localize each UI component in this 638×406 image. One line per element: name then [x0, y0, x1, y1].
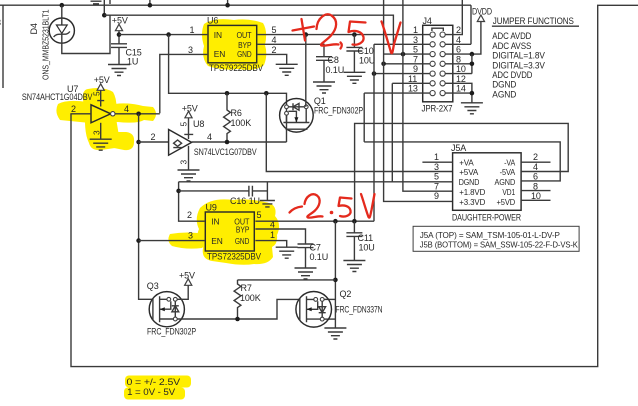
- J5A connector: [434, 143, 541, 222]
- svg-text:2: 2: [151, 132, 156, 142]
- handwriting -2.5V red: [290, 207, 303, 213]
- wire Q2 drain vertical from rail: [334, 221, 336, 328]
- wire J4 pin7 row: [384, 63, 423, 65]
- wire +2.5V rail U6 OUT to J4 pin1: [257, 34, 422, 36]
- JUMPER FUNCTIONS list: [492, 16, 579, 101]
- svg-text:AGND: AGND: [495, 177, 516, 187]
- junction dot +5VA branch: [264, 91, 269, 96]
- svg-text:11: 11: [408, 74, 417, 84]
- svg-text:+VA: +VA: [459, 157, 474, 167]
- +5V power arrow at C15: [115, 24, 122, 31]
- second line net (zener to pin3): [104, 15, 393, 44]
- svg-text:4: 4: [272, 35, 277, 45]
- wire J4 pin4 up: [453, 43, 471, 45]
- ground under C15: [108, 65, 130, 76]
- wire U8 Vcc pin 5: [184, 118, 193, 139]
- svg-text:-VA: -VA: [504, 157, 515, 167]
- svg-text:4: 4: [207, 132, 212, 142]
- junction dot top rail / D4: [60, 3, 65, 8]
- junction dot top rail x227: [225, 3, 230, 8]
- small ground under C16: [260, 201, 275, 207]
- highlighter blob over U9: [197, 199, 279, 264]
- J4 connector: [422, 16, 453, 113]
- wire J5A pin10 stub: [521, 199, 550, 201]
- svg-text:3: 3: [91, 130, 101, 135]
- svg-text:1: 1: [413, 25, 418, 35]
- svg-text:8: 8: [456, 54, 461, 64]
- ground under J4: [461, 103, 483, 114]
- svg-text:+5V: +5V: [94, 75, 110, 85]
- svg-text:R7: R7: [241, 283, 252, 293]
- transistor Q3 FRC_FDN302P: [147, 281, 196, 337]
- svg-text:3: 3: [413, 35, 418, 45]
- svg-text:5: 5: [91, 91, 101, 96]
- resistor R7: [234, 280, 241, 319]
- svg-text:+3.3VD: +3.3VD: [459, 197, 485, 207]
- wire J5A pin8 stub: [521, 190, 550, 192]
- wire U7 Vcc pin 5: [97, 90, 104, 106]
- junction dot pin9 row: [372, 71, 377, 76]
- svg-text:FRC_FDN337N: FRC_FDN337N: [336, 305, 383, 315]
- +5V pull-up rail to R6 and Q1: [169, 35, 287, 142]
- junction dot rail to C10: [352, 32, 357, 37]
- U7 inverter SN74AHCT1G04: [22, 84, 115, 123]
- J4 internal row stubs: [423, 35, 453, 94]
- svg-text:100K: 100K: [240, 293, 261, 303]
- ground under C8: [313, 82, 335, 93]
- capacitor C11: [346, 221, 362, 260]
- junction dot pin5 row: [401, 52, 406, 57]
- svg-text:7: 7: [434, 181, 439, 191]
- wire R7 top line: [238, 279, 336, 281]
- svg-text:ONS_MMBZ5231BLT1: ONS_MMBZ5231BLT1: [41, 9, 51, 80]
- wire J4 pin13 row: [364, 92, 423, 94]
- svg-text:3: 3: [434, 162, 439, 172]
- wire J4 pin3 row: [374, 43, 423, 45]
- wire J4 pin11 row: [392, 82, 422, 84]
- wire Q3 drain line to R7 bottom and Q2 gate: [177, 299, 300, 319]
- svg-text:0.1U: 0.1U: [326, 65, 345, 75]
- junction dot U9 EN: [136, 238, 141, 243]
- ground under U6 GND: [276, 64, 298, 75]
- wire U7 input pin 2 from border net: [70, 113, 91, 115]
- ground under U9 GND: [276, 247, 298, 258]
- svg-text:JPR-2X7: JPR-2X7: [422, 103, 453, 113]
- junction dot rail to C11: [352, 219, 357, 224]
- svg-text:JUMPER FUNCTIONS: JUMPER FUNCTIONS: [493, 16, 574, 27]
- svg-text:FRC_FDN302P: FRC_FDN302P: [147, 327, 196, 337]
- junction dot pin8 chain: [470, 62, 475, 67]
- wire +5V to Q3 source: [177, 285, 188, 299]
- svg-text:8: 8: [533, 181, 538, 191]
- svg-text:DVDD: DVDD: [472, 7, 492, 17]
- wire J4 pin5 row: [384, 53, 423, 55]
- wire +5V to U6 IN: [119, 34, 207, 36]
- svg-text:9: 9: [413, 64, 418, 74]
- +5V power arrow at U8: [185, 111, 192, 118]
- big block outline right: [71, 5, 638, 366]
- wire V4 vertical to J5A pin7: [403, 0, 453, 191]
- svg-text:2: 2: [187, 210, 192, 220]
- wire J5A pin4 to -5VA line1: [355, 123, 569, 221]
- wire Q2 source stub: [324, 318, 335, 320]
- wire U9 GND: [255, 241, 286, 248]
- svg-text:DGND: DGND: [459, 177, 480, 187]
- svg-text:9: 9: [434, 191, 439, 201]
- svg-text:U6: U6: [207, 16, 218, 26]
- ground under C10: [343, 72, 365, 83]
- transistor Q1 FRC_FDN302P: [280, 96, 363, 132]
- wire U9 BYP to C7: [255, 229, 305, 244]
- junction dot R6 top: [225, 91, 230, 96]
- svg-text:J5B (BOTTOM) = SAM_SSW-105-22-: J5B (BOTTOM) = SAM_SSW-105-22-F-D-VS-K: [420, 240, 578, 250]
- svg-text:0 = +/- 2.5V: 0 = +/- 2.5V: [127, 377, 181, 387]
- junction dot R7 bottom: [235, 317, 240, 322]
- svg-text:Q2: Q2: [340, 289, 352, 299]
- svg-text:100K: 100K: [231, 118, 252, 128]
- wire U6 EN to U7 output: [160, 54, 208, 113]
- junction dot R7 top: [333, 278, 338, 283]
- junction dot rail to Q2: [333, 219, 338, 224]
- cut vertical stub pair at top: [104, 0, 110, 15]
- wire C16 right to small ground: [266, 182, 268, 201]
- highlighter blob over U6: [202, 19, 266, 70]
- svg-text:+1.8VD: +1.8VD: [459, 187, 485, 197]
- svg-text:3: 3: [0, 18, 1, 28]
- svg-text:4: 4: [456, 35, 461, 45]
- capacitor C10: [346, 35, 362, 73]
- svg-text:14: 14: [456, 84, 466, 94]
- svg-text:10: 10: [456, 64, 466, 74]
- wire U6 BYP to C8: [257, 44, 324, 56]
- wire J5A pin2 stub: [521, 161, 550, 163]
- U6 regulator box: [207, 16, 263, 74]
- wire stub up from top rail x150: [149, 0, 151, 5]
- svg-text:J4: J4: [423, 16, 432, 26]
- svg-text:SN74AHCT1G04DBV: SN74AHCT1G04DBV: [22, 92, 93, 102]
- svg-text:7: 7: [413, 54, 418, 64]
- J4 jumper bracket pins 1-2: [432, 28, 443, 31]
- svg-text:2: 2: [272, 45, 277, 55]
- wire top rail corner down to J4 pin4: [470, 5, 472, 44]
- ground under Q2: [324, 328, 346, 339]
- handwriting +2.5V red: [293, 27, 315, 31]
- svg-text:5: 5: [413, 45, 418, 55]
- wire left edge stub: [2, 5, 4, 88]
- svg-text:3: 3: [179, 160, 189, 165]
- svg-text:10: 10: [531, 191, 541, 201]
- junction dot pin7 row: [381, 62, 386, 67]
- svg-text:4: 4: [124, 104, 129, 114]
- svg-text:R6: R6: [231, 108, 242, 118]
- wire U9 OUT -2.5V rail: [255, 220, 374, 222]
- svg-text:Q3: Q3: [147, 281, 159, 291]
- resistor R6: [224, 93, 231, 142]
- wire AGND vertical row13 to line2: [363, 93, 365, 142]
- svg-text:D4: D4: [29, 23, 39, 34]
- svg-text:FRC_FDN302P: FRC_FDN302P: [314, 106, 363, 116]
- capacitor C16: [179, 186, 268, 197]
- zener diode D4: [49, 5, 74, 43]
- wire U8 input: [139, 141, 169, 143]
- wire chain pins 12-14 to ground: [453, 83, 472, 103]
- svg-text:4: 4: [533, 162, 538, 172]
- svg-text:+5V: +5V: [182, 104, 198, 114]
- svg-text:AGND: AGND: [492, 90, 516, 101]
- transistor Q2 FRC_FDN337N: [296, 289, 383, 327]
- junction dot pin6 chain: [470, 52, 475, 57]
- DVDD power arrow: [477, 15, 484, 22]
- wire control vertical to U9 EN and Q3 gate: [139, 114, 153, 299]
- junction dot U7 out branch: [136, 112, 141, 117]
- wire Q2 drain stub: [324, 298, 335, 300]
- junction dot top rail x150: [148, 3, 153, 8]
- wire DGND line to J5A pin5: [179, 181, 453, 183]
- U8 buffer SN74LVC1G07: [169, 119, 257, 157]
- +5V power arrow at Q3: [185, 279, 192, 286]
- junction dot C16 left: [176, 189, 181, 194]
- wire U8 gnd pin 3: [188, 146, 190, 170]
- wire V2 vertical to J5A pin9: [384, 0, 453, 201]
- svg-text:6: 6: [533, 172, 538, 182]
- wire J4 pin2 up: [453, 0, 463, 35]
- J4 pin circles: [430, 32, 445, 96]
- wire U7 gnd pin 3: [100, 123, 102, 139]
- wire D4 bottom loop: [62, 15, 110, 53]
- wire J4 pin9 row: [374, 73, 423, 75]
- highlighter blob over U7: [56, 101, 156, 123]
- wire +5V down to IN node: [118, 31, 120, 44]
- top rail net AVDD: [0, 4, 471, 6]
- svg-text:TPS72325DBV: TPS72325DBV: [207, 252, 261, 262]
- wire chain pins 6-8-10: [453, 54, 472, 74]
- wire stub up from top rail x227: [227, 0, 229, 5]
- wire J4 pin6 row to DVDD: [453, 22, 481, 55]
- svg-text:C8: C8: [328, 55, 339, 65]
- wire U9 EN row: [139, 240, 205, 242]
- junction dot U8 input: [136, 140, 141, 145]
- svg-text:C16 1U: C16 1U: [230, 196, 260, 206]
- cut ground symbol at top: [91, 1, 102, 4]
- svg-text:2: 2: [456, 25, 461, 35]
- svg-text:U8: U8: [193, 119, 204, 129]
- svg-text:10U: 10U: [359, 242, 375, 252]
- wire U8 output pin 4 to Q1 gate line: [192, 141, 287, 143]
- svg-text:+5VA: +5VA: [459, 167, 478, 177]
- junction dot +5V branch to R6 rail: [166, 32, 171, 37]
- wire U6 GND: [257, 54, 286, 64]
- svg-text:GND: GND: [235, 236, 249, 246]
- svg-text:10U: 10U: [359, 55, 375, 65]
- J4 left pin numbers: [408, 25, 418, 94]
- highlighter bottom notes: [125, 376, 191, 388]
- junction dot second line: [102, 13, 107, 18]
- wire V1 AVSS vertical: [373, 44, 375, 221]
- svg-text:-5VA: -5VA: [500, 167, 516, 177]
- svg-text:2: 2: [533, 152, 538, 162]
- ground under U8: [178, 170, 200, 181]
- svg-text:J5A (TOP) = SAM_TSM-105-01-L-D: J5A (TOP) = SAM_TSM-105-01-L-DV-P: [420, 230, 560, 240]
- svg-text:+5V: +5V: [179, 270, 195, 280]
- svg-text:J5A: J5A: [451, 143, 466, 153]
- +5V power arrow at U7: [97, 84, 104, 91]
- wire U7 output pin 4: [115, 113, 160, 115]
- svg-text:OUT: OUT: [237, 30, 252, 40]
- svg-text:BYP: BYP: [236, 225, 250, 235]
- svg-text:5: 5: [257, 210, 262, 220]
- svg-text:1: 1: [434, 152, 439, 162]
- svg-text:1 = 0V - 5V: 1 = 0V - 5V: [127, 387, 175, 397]
- note box J5A J5B part numbers: [413, 226, 579, 251]
- junction dot pin14 chain: [470, 91, 475, 96]
- J4 right pin numbers: [456, 25, 466, 94]
- svg-text:+5VD: +5VD: [497, 197, 516, 207]
- svg-text:VD1: VD1: [502, 187, 515, 197]
- svg-text:EN: EN: [211, 236, 222, 246]
- svg-text:U9: U9: [206, 203, 217, 213]
- svg-text:6: 6: [456, 45, 461, 55]
- svg-text:0.1U: 0.1U: [310, 252, 329, 262]
- svg-text:5: 5: [179, 122, 189, 127]
- junction dot rail to Q1: [304, 32, 309, 37]
- svg-text:+5V: +5V: [112, 15, 128, 25]
- junction dot R6 bottom: [225, 140, 230, 145]
- wire J5A pin1 stub: [422, 161, 452, 163]
- svg-text:1: 1: [270, 230, 275, 240]
- wire J5A pin6 to AGND line2: [364, 142, 560, 181]
- svg-text:EN: EN: [214, 49, 225, 59]
- svg-text:TPS79225DBV: TPS79225DBV: [209, 63, 263, 73]
- svg-text:5: 5: [272, 25, 277, 35]
- svg-text:2: 2: [71, 104, 76, 114]
- junction dot +5V node: [117, 32, 122, 37]
- ground under U7: [90, 139, 112, 150]
- capacitor C7: [298, 244, 314, 268]
- ground under C11: [343, 261, 365, 272]
- svg-text:Q1: Q1: [314, 96, 326, 106]
- wire V3 vertical DGND: [391, 83, 393, 182]
- capacitor C15: [111, 44, 127, 64]
- svg-text:SN74LVC1G07DBV: SN74LVC1G07DBV: [194, 147, 257, 157]
- wire Q1 drain to +2.5V rail: [305, 35, 307, 107]
- svg-text:12: 12: [456, 74, 466, 84]
- capacitor C8: [316, 57, 332, 82]
- svg-text:1: 1: [190, 25, 195, 35]
- svg-text:GND: GND: [237, 49, 251, 59]
- svg-text:5: 5: [434, 172, 439, 182]
- svg-text:3: 3: [188, 231, 193, 241]
- U9 regulator box: [205, 203, 261, 262]
- wire U9 IN from DGND corner: [179, 182, 205, 221]
- svg-text:IN: IN: [214, 30, 222, 40]
- svg-text:IN: IN: [211, 217, 219, 227]
- svg-text:DAUGHTER-POWER: DAUGHTER-POWER: [452, 212, 521, 222]
- svg-text:13: 13: [408, 84, 418, 94]
- wire +5VA branch down to J5A pin3: [266, 93, 452, 171]
- ground under C7: [295, 268, 317, 279]
